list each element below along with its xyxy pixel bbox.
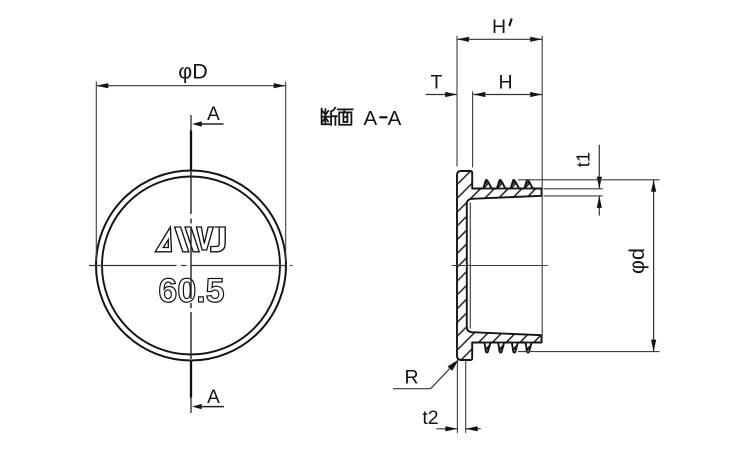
svg-text:H: H (498, 72, 512, 94)
kanji DAN (section) (322, 108, 337, 125)
dimension H (473, 72, 543, 168)
svg-text:φd: φd (625, 248, 649, 274)
svg-text:t2: t2 (422, 407, 438, 429)
svg-text:H: H (492, 16, 506, 38)
dimension phi-D (96, 60, 285, 262)
dimension t1 (544, 145, 603, 216)
inner fillet edge line (469, 203, 471, 329)
AWJ logo (outlined) (155, 227, 225, 252)
kanji MEN (face) (338, 109, 353, 124)
vertical section cutting line A-A (190, 115, 192, 413)
radius callout R (393, 359, 459, 388)
section view centerline (452, 265, 548, 267)
skirt outer surface base lines (continuous under ribs) (472, 188, 541, 190)
svg-text:t1: t1 (573, 152, 594, 167)
dimension t2 (422, 361, 480, 433)
svg-text:A: A (207, 104, 220, 125)
hatch strokes inside ribs (484, 182, 530, 351)
svg-text:φD: φD (178, 60, 207, 84)
svg-text:A: A (207, 387, 220, 408)
section arrow A (bottom) (192, 387, 224, 409)
section arrow A (top) (192, 104, 223, 127)
svg-text:A: A (364, 107, 378, 130)
inner circle (face rim edge) (102, 177, 280, 355)
horizontal centerline of front view (dash-dot) (89, 265, 293, 267)
svg-text:T: T (431, 72, 443, 94)
svg-text:R: R (404, 366, 418, 388)
dimension H' (457, 16, 542, 343)
dimension phi-d (518, 180, 660, 352)
outer circle (cap face diameter phi-D) (96, 171, 286, 361)
svg-text:A: A (388, 107, 402, 130)
dimension T (426, 72, 458, 98)
